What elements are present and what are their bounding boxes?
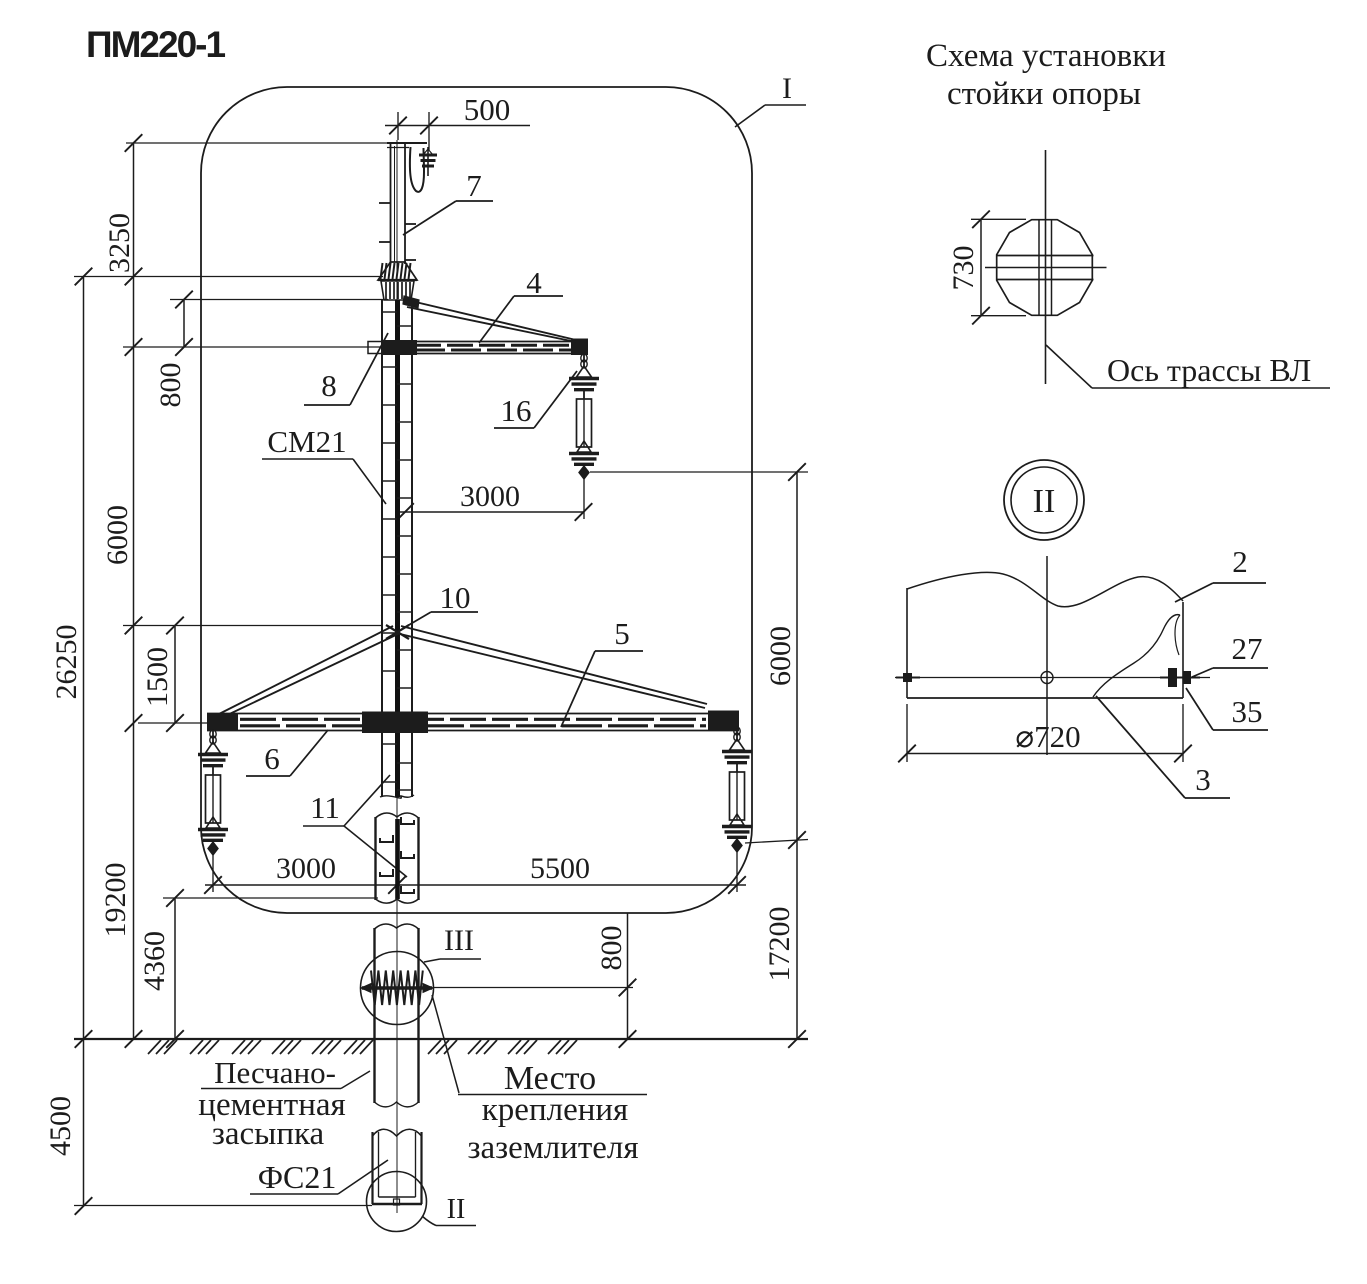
svg-text:11: 11: [310, 790, 340, 825]
lower piece top wavy cut: [373, 1129, 422, 1136]
ground hatching left of foundation: [148, 1040, 161, 1054]
svg-text:стойки опоры: стойки опоры: [947, 76, 1141, 112]
svg-text:II: II: [1033, 483, 1056, 520]
svg-text:7: 7: [466, 168, 482, 203]
mast section joint (wavy bottom of upper stand): [380, 795, 414, 798]
svg-text:6000: 6000: [764, 626, 797, 686]
section A bottom wavy edge: [376, 899, 419, 903]
detail II inner break line: [1093, 615, 1180, 697]
lower tie left: [217, 626, 393, 715]
extension line: upper crossarm level: [123, 346, 382, 348]
svg-text:Песчано-: Песчано-: [214, 1055, 336, 1090]
label ось трассы ВЛ: [1046, 345, 1330, 388]
section B bottom wavy edge: [375, 1102, 419, 1107]
label III: [424, 924, 481, 962]
plan horizontal centreline: [985, 267, 1107, 269]
label 27: [1192, 631, 1268, 677]
pole centre axis line: [396, 140, 398, 1213]
svg-text:26250: 26250: [50, 625, 83, 700]
svg-text:заземлителя: заземлителя: [467, 1130, 638, 1166]
label 16: [494, 371, 577, 428]
detail II body outline: [907, 572, 1183, 698]
bolt markers right (27/35): [1168, 668, 1177, 687]
peak step bolts: [379, 202, 391, 204]
svg-text:3: 3: [1195, 762, 1211, 797]
dimension line 1500 vertical: [174, 626, 176, 724]
dimension line 3250/6000/19200 vertical: [133, 143, 135, 1039]
svg-text:4360: 4360: [138, 931, 171, 991]
dimension ⌀720: [898, 704, 1192, 762]
dimension line 26250/4500 vertical: [83, 277, 85, 1207]
svg-text:засыпка: засыпка: [212, 1116, 325, 1152]
svg-text:730: 730: [947, 246, 980, 291]
dimension line 800 left vertical: [183, 300, 185, 348]
svg-text:СМ21: СМ21: [267, 424, 346, 459]
svg-text:I: I: [782, 72, 792, 105]
upper crossarm diagonal tie: [407, 300, 576, 340]
upper insulator chain 16: [569, 353, 599, 479]
mast ladder rungs: [382, 312, 412, 790]
section A bracket marks: [401, 817, 414, 824]
label II: [422, 1194, 476, 1226]
svg-text:1500: 1500: [141, 647, 174, 707]
dimension line 3000/5500: [205, 884, 746, 886]
text место крепления заземлителя: [432, 995, 647, 1166]
extension line: apex level: [123, 625, 383, 627]
section B top wavy edge: [375, 924, 419, 929]
pole cross-section polygon: [997, 220, 1093, 316]
pole mast body (upper part): [382, 300, 412, 797]
grounding coil symbol: [361, 971, 433, 1006]
label 8: [304, 333, 388, 405]
svg-text:Ось трассы ВЛ: Ось трассы ВЛ: [1107, 352, 1311, 388]
upper chain extension for 3000: [583, 478, 585, 519]
svg-text:35: 35: [1232, 694, 1263, 729]
section A top wavy edge: [376, 813, 419, 818]
label I: [735, 72, 806, 127]
extension line: grounding attach level: [433, 987, 633, 989]
bolt marker left: [903, 673, 912, 682]
dimension line 500: [385, 125, 530, 127]
label 10: [402, 580, 478, 629]
svg-text:Схема установки: Схема установки: [926, 38, 1166, 74]
extension line: pole top level: [126, 142, 392, 144]
foundation shell section A (broken-out top): [376, 817, 419, 900]
svg-text:крепления: крепления: [482, 1092, 628, 1128]
ground hatching right of foundation: [428, 1040, 441, 1054]
svg-text:17200: 17200: [763, 907, 796, 982]
svg-text:6000: 6000: [101, 505, 134, 565]
dimension 730: [947, 211, 1026, 325]
outline boundary I (rounded rect): [201, 87, 752, 913]
extension line: upper chain bottom: [590, 471, 808, 473]
svg-text:5500: 5500: [530, 852, 590, 885]
detail II horizontal centreline: [895, 677, 1210, 679]
lower crossarm 5/6: [207, 711, 739, 734]
svg-text:10: 10: [440, 580, 471, 615]
svg-text:3000: 3000: [460, 480, 520, 513]
lower tie right: [401, 626, 707, 704]
detail II pole axis vertical: [1046, 556, 1048, 755]
chain bottom extension right: [736, 851, 738, 892]
dimension line 6000/17200 right vertical: [796, 472, 798, 1039]
peak top cap: [387, 142, 427, 144]
detail marker circle II: [1004, 460, 1084, 540]
svg-text:27: 27: [1232, 631, 1263, 666]
apex gusset 10: [386, 625, 409, 639]
extension lines for 500: [397, 112, 399, 140]
collar block below peak: [381, 281, 414, 300]
left insulator chain: [198, 729, 228, 855]
cable peak column: [391, 143, 406, 264]
dimension line 4360 vertical: [174, 898, 176, 1039]
plan view axis vertical: [1045, 150, 1047, 384]
extension line: lower crossarm level: [138, 722, 209, 724]
label 5: [561, 616, 643, 727]
label 35: [1186, 688, 1268, 730]
svg-text:500: 500: [464, 92, 511, 127]
upper crossarm left stub: [368, 342, 382, 354]
svg-text:16: 16: [501, 393, 532, 428]
foundation bottom cap: [372, 1197, 422, 1205]
grounding attach detail circle III: [361, 952, 434, 1025]
plan view title: [926, 38, 1166, 112]
upper crossarm 4: [412, 339, 588, 356]
extension line: peak base level: [74, 276, 383, 278]
label 6: [246, 730, 328, 776]
label 2: [1175, 544, 1266, 602]
label 7: [403, 168, 493, 235]
svg-text:4500: 4500: [44, 1096, 77, 1156]
grounding wire loop with small insulator: [410, 147, 437, 192]
svg-text:19200: 19200: [99, 863, 132, 938]
svg-text:3000: 3000: [276, 852, 336, 885]
label ФС21: [250, 1159, 388, 1195]
crossarm band through section: [996, 255, 1094, 257]
label 11 (two leaders): [303, 775, 407, 877]
dimension line 3000 upper: [397, 511, 584, 513]
label СМ21: [262, 424, 386, 504]
svg-text:ПМ220-1: ПМ220-1: [86, 24, 225, 65]
label 3: [1096, 696, 1230, 798]
tie attach plate: [403, 296, 419, 308]
svg-text:800: 800: [154, 363, 187, 408]
right insulator chain: [722, 726, 752, 852]
cross-section inner walls: [1038, 220, 1040, 316]
chain bottom extension left: [212, 854, 214, 892]
svg-text:8: 8: [321, 368, 337, 403]
svg-text:III: III: [444, 924, 474, 957]
ground line: [74, 1038, 808, 1040]
detail circle II at foundation bottom: [367, 1172, 427, 1232]
svg-text:2: 2: [1232, 544, 1248, 579]
extension line: lower chain bottom right: [745, 840, 808, 844]
bolt marker centre: [1041, 672, 1053, 684]
text песчано-цементная засыпка: [198, 1055, 370, 1152]
svg-text:3250: 3250: [103, 213, 136, 273]
svg-text:⌀720: ⌀720: [1015, 719, 1080, 754]
foundation shell section B (ground part): [375, 928, 419, 1103]
extension line: stand bottom level: [163, 897, 378, 899]
dimension line 800 right vertical: [627, 914, 629, 1040]
peak base flare: [378, 262, 417, 280]
foundation lower piece: [373, 1132, 422, 1204]
svg-text:4: 4: [526, 265, 542, 300]
label 4: [479, 265, 563, 343]
svg-text:II: II: [447, 1194, 466, 1225]
upper crossarm pole junction: [383, 340, 417, 355]
svg-text:6: 6: [264, 741, 280, 776]
extension line: upper tie attach level: [170, 299, 388, 301]
svg-text:5: 5: [614, 616, 630, 651]
bottom extension line foundation base: [74, 1205, 372, 1207]
svg-text:800: 800: [595, 926, 628, 971]
svg-text:ФС21: ФС21: [258, 1159, 337, 1195]
